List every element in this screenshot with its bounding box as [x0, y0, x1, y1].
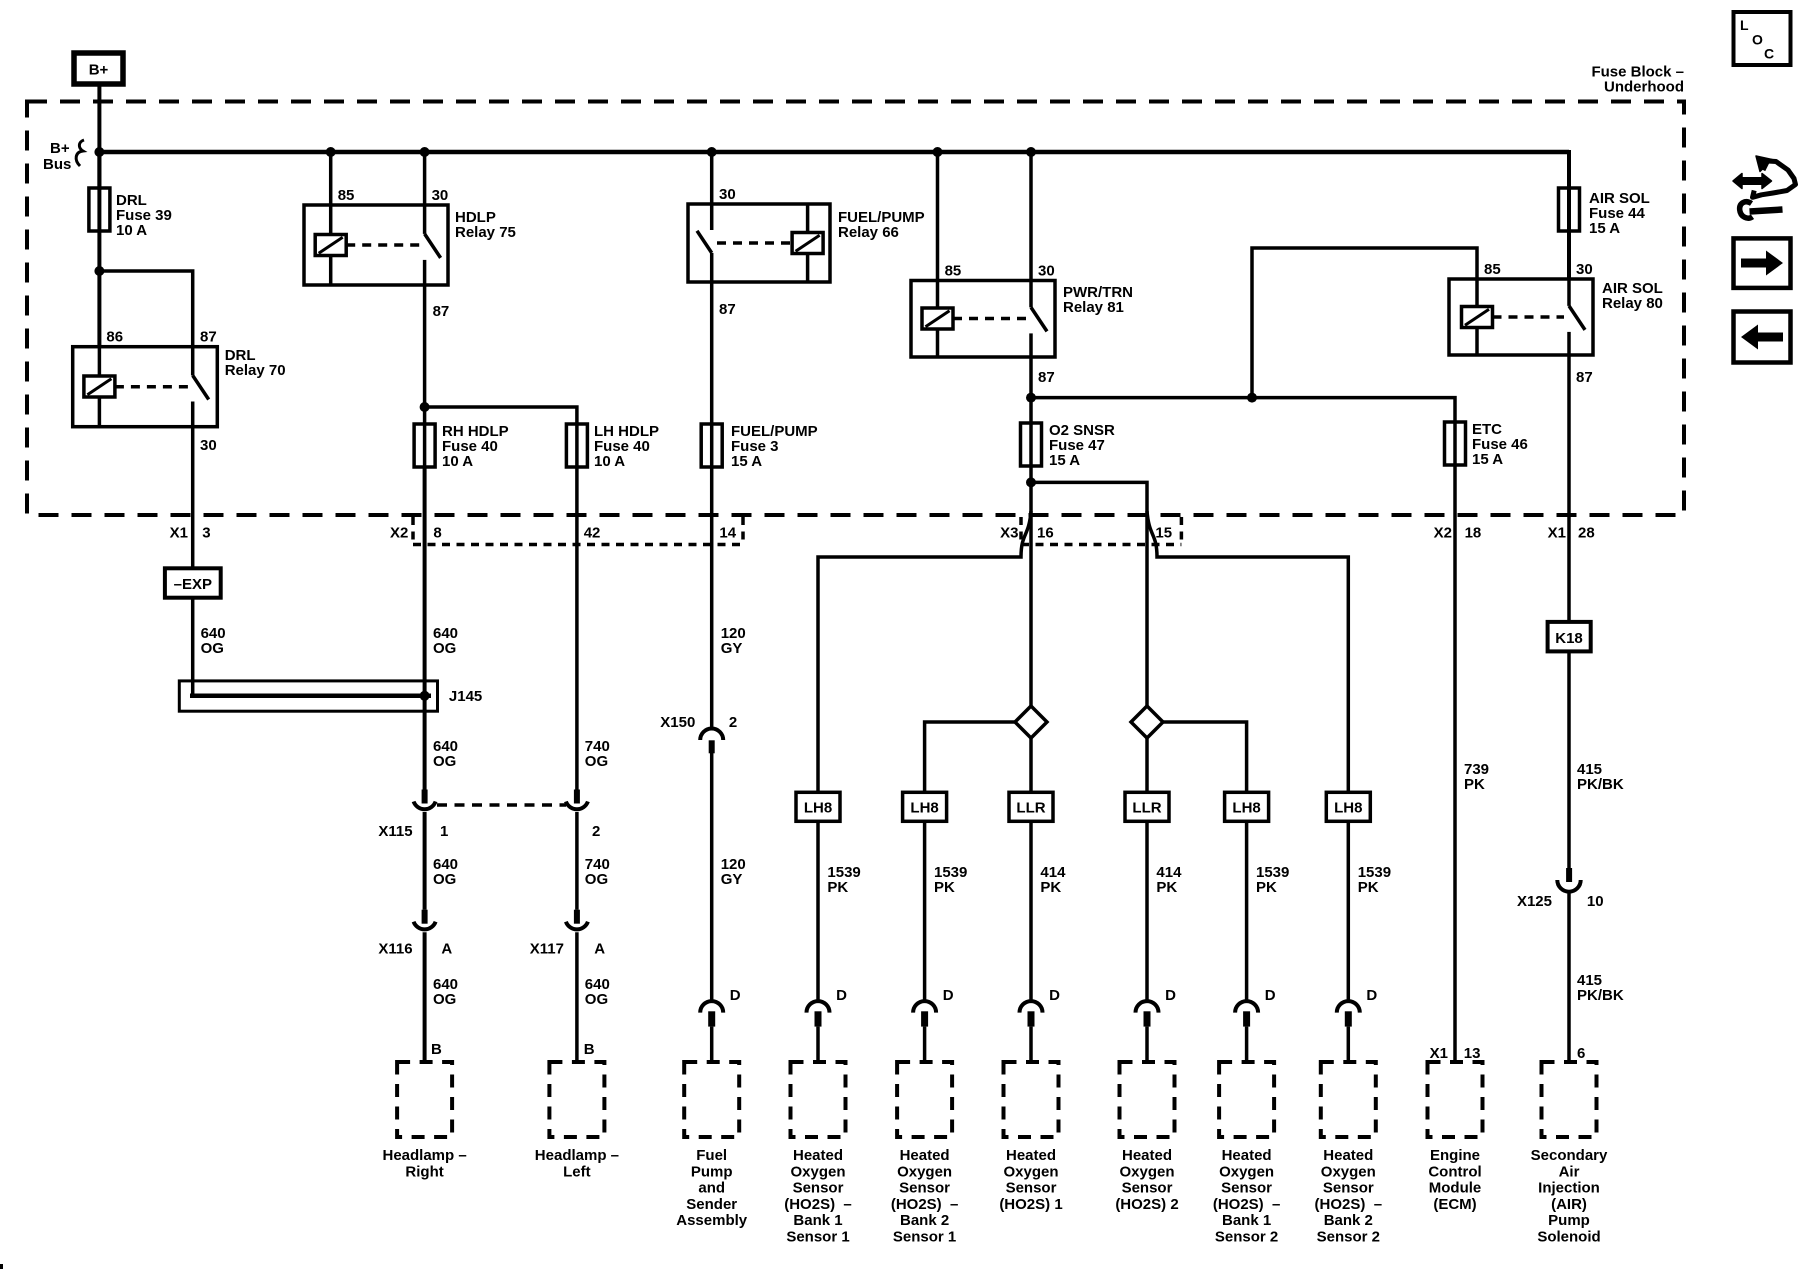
svg-text:30: 30: [1576, 261, 1593, 278]
wire label 415 PK/BK (upper): [1577, 761, 1624, 793]
svg-text:1: 1: [440, 823, 448, 840]
svg-text:Secondary: Secondary: [1531, 1147, 1608, 1164]
svg-text:X1: X1: [1548, 525, 1566, 542]
node: fuse39 output split: [94, 266, 104, 276]
svg-text:A: A: [441, 941, 452, 958]
svg-text:16: 16: [1037, 525, 1054, 542]
svg-text:Heated: Heated: [1222, 1147, 1272, 1164]
stray ink mark bottom left: [0, 1264, 3, 1269]
svg-text:X3: X3: [1000, 525, 1018, 542]
svg-text:OG: OG: [433, 871, 456, 888]
wire bus to DRL fuse 39 to relay 70: [97, 152, 101, 347]
svg-text:X2: X2: [1434, 525, 1452, 542]
component dashed box Headlamp Right: [382, 1062, 466, 1180]
svg-text:Oxygen: Oxygen: [1219, 1163, 1274, 1180]
component dashed box Fuel Pump and Sender Assembly: [676, 1062, 748, 1229]
node: J145 bus tap: [420, 691, 430, 701]
wire branch left to HO2S bank1 sensor1: [818, 511, 1031, 792]
svg-text:D: D: [730, 987, 741, 1004]
node: relay 80 coil tap: [1247, 393, 1257, 403]
svg-text:Sensor: Sensor: [1122, 1180, 1173, 1197]
svg-text:GY: GY: [721, 640, 743, 657]
svg-text:X117: X117: [530, 941, 564, 958]
connector X2 pin box (pins 8 42 14): [413, 517, 743, 546]
wire branch right to HO2S bank2 sensor2: [1147, 511, 1348, 792]
wire LH8 leg6 to sensor, label 1539 PK, connector D: [1337, 821, 1391, 1062]
wire label 640 OG (left leg): [201, 625, 226, 657]
svg-text:Fuel: Fuel: [696, 1147, 727, 1164]
component dashed box HO2S Bank 1 Sensor 1: [784, 1062, 852, 1246]
connector row labels X1 3: [170, 525, 211, 542]
component code box LH8 (leg 6): [1326, 792, 1370, 821]
wire relay 81 pin 30 from bus: [1029, 152, 1033, 281]
svg-text:10 A: 10 A: [116, 222, 147, 239]
node: relay 81 output split: [1026, 393, 1036, 403]
svg-text:Oxygen: Oxygen: [1119, 1163, 1174, 1180]
svg-text:Relay 81: Relay 81: [1063, 299, 1124, 316]
svg-text:Air: Air: [1559, 1163, 1580, 1180]
svg-text:Oxygen: Oxygen: [790, 1163, 845, 1180]
svg-text:(HO2S) –: (HO2S) –: [1213, 1196, 1281, 1213]
wire labels 640 OG at headlamp right terminal B: [431, 976, 458, 1058]
svg-text:87: 87: [719, 301, 736, 318]
wire labels 640 OG between X115 and X116: [433, 856, 458, 888]
svg-text:OG: OG: [585, 871, 608, 888]
svg-text:X150: X150: [660, 714, 695, 731]
svg-text:42: 42: [584, 525, 601, 542]
wire RH HDLP fuse to headlamp right: [423, 467, 427, 1062]
component dashed box Headlamp Left: [535, 1062, 619, 1180]
svg-text:15 A: 15 A: [1472, 451, 1503, 468]
inline connector D (fuel pump): [700, 987, 741, 1027]
wire relay 75 pin 30 from bus: [423, 152, 427, 205]
svg-text:–EXP: –EXP: [174, 576, 212, 593]
svg-text:X125: X125: [1517, 893, 1552, 910]
wire FUEL/PUMP fuse 3 to fuel pump: [710, 467, 714, 1062]
wire branch to relay 70 pin 87: [99, 271, 192, 347]
svg-text:(HO2S) 1: (HO2S) 1: [999, 1196, 1062, 1213]
fuse FUEL/PUMP Fuse 3 15 A: [701, 423, 817, 470]
wire relay 66 pin 87 to FUEL/PUMP fuse 3: [710, 282, 714, 467]
svg-text:D: D: [1265, 987, 1276, 1004]
connector X3 pin box (pins 16 15): [1021, 517, 1181, 546]
wire relay 81 pin 87 to O2 SNSR fuse 47: [1029, 357, 1033, 466]
wire fuse 47 to splice diamond 1 (pin 16): [1029, 466, 1033, 707]
component code box LH8 (leg 5): [1225, 792, 1269, 821]
inline connector X150 pin 2: [660, 714, 737, 753]
bus junction node (relay 75 pin 85): [326, 147, 336, 157]
svg-text:X1: X1: [170, 525, 188, 542]
svg-text:X2: X2: [390, 525, 408, 542]
component dashed box HO2S Bank 2 Sensor 2: [1315, 1062, 1383, 1246]
svg-text:6: 6: [1577, 1045, 1585, 1062]
svg-text:85: 85: [338, 187, 355, 204]
svg-text:Bank 1: Bank 1: [1222, 1212, 1271, 1229]
svg-text:PK: PK: [1358, 879, 1379, 896]
relay FUEL/PUMP Relay 66: [688, 186, 925, 318]
connector row labels X2 18: [1434, 525, 1482, 542]
wire relay 75 pin 85 from bus: [329, 152, 333, 205]
inline connector X116 pin A: [378, 910, 452, 958]
component code box LH8 (leg 1): [796, 792, 840, 821]
wire labels 640 OG at headlamp left terminal B: [584, 976, 610, 1058]
svg-text:PK: PK: [1256, 879, 1277, 896]
svg-text:Heated: Heated: [793, 1147, 843, 1164]
svg-text:OG: OG: [433, 640, 456, 657]
svg-text:X116: X116: [378, 941, 412, 958]
wire relay 75 pin 87 to RH HDLP fuse 40: [423, 285, 427, 467]
svg-text:Solenoid: Solenoid: [1537, 1229, 1600, 1246]
splice pack J145: [179, 681, 482, 711]
svg-text:8: 8: [433, 525, 441, 542]
wire relay 66 pin 30 from bus: [710, 152, 714, 204]
wire branch to pin 15: [1031, 482, 1147, 707]
svg-text:L: L: [1740, 17, 1749, 33]
svg-text:10: 10: [1587, 893, 1604, 910]
bus junction node (relay 81 pin 85): [933, 147, 943, 157]
svg-text:LH8: LH8: [910, 800, 938, 817]
wire diamond 1 left branch: [925, 722, 1015, 792]
svg-text:Bank 2: Bank 2: [900, 1212, 949, 1229]
svg-text:Module: Module: [1429, 1180, 1482, 1197]
svg-text:Headlamp –: Headlamp –: [535, 1147, 619, 1164]
fuse LH HDLP Fuse 40 10 A: [566, 423, 659, 470]
connector row labels X3 16 15: [1000, 525, 1172, 542]
svg-text:Control: Control: [1428, 1163, 1481, 1180]
svg-text:PK: PK: [934, 879, 955, 896]
Fuse Block - Underhood dashed border: [27, 102, 1684, 516]
wire labels 740 OG between X115 and X117: [585, 856, 610, 888]
svg-text:18: 18: [1465, 525, 1482, 542]
svg-text:Sensor: Sensor: [1323, 1180, 1374, 1197]
svg-text:Heated: Heated: [900, 1147, 950, 1164]
relay HDLP Relay 75: [304, 187, 516, 320]
svg-text:Oxygen: Oxygen: [897, 1163, 952, 1180]
wire label 640 OG (center leg upper): [433, 625, 458, 657]
svg-text:B: B: [431, 1041, 442, 1058]
svg-text:15 A: 15 A: [731, 453, 762, 470]
svg-text:Sensor: Sensor: [1006, 1180, 1057, 1197]
svg-text:Bank 2: Bank 2: [1324, 1212, 1373, 1229]
svg-text:14: 14: [719, 525, 736, 542]
component dashed box HO2S 1: [999, 1062, 1062, 1213]
svg-text:A: A: [594, 941, 605, 958]
inline connector X115 pin 2: [566, 790, 600, 841]
ECM terminal labels X1 13: [1430, 1045, 1481, 1062]
EXP box: [165, 568, 221, 597]
svg-text:Pump: Pump: [691, 1163, 733, 1180]
svg-text:(ECM): (ECM): [1433, 1196, 1476, 1213]
svg-text:13: 13: [1464, 1045, 1481, 1062]
component dashed box HO2S Bank 2 Sensor 1: [891, 1062, 959, 1246]
svg-text:3: 3: [202, 525, 210, 542]
inline connector X115 pin 1: [378, 790, 448, 841]
svg-text:Headlamp –: Headlamp –: [382, 1147, 466, 1164]
svg-text:87: 87: [200, 329, 217, 346]
svg-text:LH8: LH8: [804, 800, 832, 817]
wire branch to LH HDLP fuse 40: [425, 407, 577, 467]
node: headlamp fuse feed split: [420, 402, 430, 412]
svg-text:K18: K18: [1555, 630, 1583, 647]
svg-text:15 A: 15 A: [1049, 452, 1080, 469]
wire label 739 PK: [1464, 761, 1489, 793]
hand-drawn directions/tools icon: [1733, 156, 1796, 218]
svg-text:Sensor: Sensor: [899, 1180, 950, 1197]
svg-text:Relay 80: Relay 80: [1602, 295, 1663, 312]
wire LH8 leg2 to sensor, label 1539 PK, connector D: [913, 821, 967, 1062]
component dashed box Engine Control Module ECM: [1428, 1062, 1483, 1213]
svg-text:Left: Left: [563, 1163, 591, 1180]
svg-text:15: 15: [1155, 525, 1172, 542]
wire diamond 2 down branch: [1145, 738, 1149, 792]
svg-text:B+: B+: [89, 62, 109, 79]
wire to ETC fuse 46: [1031, 398, 1455, 465]
svg-text:B: B: [584, 1041, 595, 1058]
svg-text:Oxygen: Oxygen: [1321, 1163, 1376, 1180]
component code box K18: [1548, 622, 1591, 652]
svg-text:30: 30: [719, 186, 736, 203]
svg-text:30: 30: [1038, 263, 1055, 280]
svg-text:D: D: [943, 987, 954, 1004]
svg-text:30: 30: [432, 187, 449, 204]
svg-text:X115: X115: [378, 823, 412, 840]
svg-text:D: D: [1366, 987, 1377, 1004]
svg-text:85: 85: [1484, 261, 1501, 278]
svg-text:Engine: Engine: [1430, 1147, 1480, 1164]
component code box LH8 (leg 2): [903, 792, 947, 821]
dashed connector tie X115: [437, 803, 566, 807]
B+ bus wire: [99, 150, 1569, 155]
svg-text:Sender: Sender: [686, 1196, 737, 1213]
svg-text:Relay 70: Relay 70: [225, 362, 286, 379]
svg-text:Underhood: Underhood: [1604, 79, 1684, 96]
connector row labels X1 28: [1548, 525, 1595, 542]
wire EXP to J145: [191, 598, 195, 698]
wire B+ down to bus: [97, 86, 101, 190]
svg-text:Injection: Injection: [1538, 1180, 1600, 1197]
svg-text:87: 87: [1576, 369, 1593, 386]
svg-text:Sensor: Sensor: [1221, 1180, 1272, 1197]
wire LH8 leg1 to sensor, label 1539 PK, connector D: [807, 821, 861, 1062]
svg-text:LLR: LLR: [1016, 800, 1045, 817]
svg-text:OG: OG: [433, 991, 456, 1008]
svg-text:C: C: [1764, 46, 1774, 62]
inline connector X125 pin 10: [1517, 868, 1604, 910]
wire X125 to AIR pump solenoid: [1567, 891, 1571, 1063]
svg-text:2: 2: [729, 714, 737, 731]
svg-text:15 A: 15 A: [1589, 220, 1620, 237]
wire diamond 2 right branch: [1163, 722, 1247, 792]
wire diamond 1 down branch: [1029, 738, 1033, 792]
component dashed box Secondary Air Injection AIR Pump Solenoid: [1531, 1062, 1608, 1246]
B+ power feed symbol: [74, 53, 123, 84]
svg-text:Relay 75: Relay 75: [455, 224, 516, 241]
wire label 640 OG (below J145): [433, 738, 458, 770]
svg-text:30: 30: [200, 437, 217, 454]
svg-text:Sensor 2: Sensor 2: [1215, 1229, 1278, 1246]
wire label 740 OG (below fuse 42 leg): [585, 738, 610, 770]
connector row labels X2 8 42 14: [390, 525, 737, 542]
component dashed box HO2S 2: [1115, 1062, 1178, 1213]
svg-text:Heated: Heated: [1122, 1147, 1172, 1164]
node: sensor feed split at fuse 47: [1026, 477, 1036, 487]
svg-text:D: D: [836, 987, 847, 1004]
relay DRL Relay 70: [73, 329, 286, 454]
svg-text:J145: J145: [449, 688, 482, 705]
svg-text:PK/BK: PK/BK: [1577, 776, 1624, 793]
relay PWR/TRN Relay 81: [911, 263, 1133, 387]
svg-text:Relay 66: Relay 66: [838, 224, 899, 241]
bus junction node (B+ drop): [94, 147, 104, 157]
fuse O2 SNSR Fuse 47 15 A: [1021, 422, 1116, 469]
splice diamond S2: [1131, 706, 1163, 738]
svg-text:PK/BK: PK/BK: [1577, 987, 1624, 1004]
component code box LLR (leg 3): [1009, 792, 1053, 821]
svg-text:X1: X1: [1430, 1045, 1448, 1062]
wire label 415 PK/BK (lower): [1577, 972, 1624, 1004]
bus junction node (relay 75 pin 30): [420, 147, 430, 157]
svg-text:Sensor 1: Sensor 1: [893, 1229, 956, 1246]
fuse DRL Fuse 39 10 A: [89, 188, 172, 239]
bus junction node (relay 81 pin 30): [1026, 147, 1036, 157]
Fuse Block label: [1591, 64, 1684, 96]
wire to relay 80 pin 85: [1252, 248, 1477, 398]
svg-text:Right: Right: [405, 1163, 443, 1180]
B+ Bus label: [43, 140, 84, 173]
svg-text:PK: PK: [827, 879, 848, 896]
svg-text:10 A: 10 A: [594, 453, 625, 470]
svg-text:28: 28: [1578, 525, 1595, 542]
svg-text:O: O: [1752, 32, 1763, 48]
relay AIR SOL Relay 80: [1449, 261, 1663, 386]
svg-text:10 A: 10 A: [442, 453, 473, 470]
wire LLR leg4 to sensor, label 414 PK, connector D: [1136, 821, 1183, 1062]
svg-text:87: 87: [433, 303, 450, 320]
wire relay 80 pin 87 to K18: [1567, 355, 1571, 622]
svg-text:D: D: [1165, 987, 1176, 1004]
wire LH HDLP fuse to headlamp left: [575, 467, 579, 1062]
svg-text:OG: OG: [585, 991, 608, 1008]
svg-text:B+: B+: [50, 140, 70, 157]
svg-text:85: 85: [945, 263, 962, 280]
svg-text:Heated: Heated: [1006, 1147, 1056, 1164]
wire relay 70 pin 30 to EXP: [191, 427, 195, 569]
wire LH8 leg5 to sensor, label 1539 PK, connector D: [1235, 821, 1289, 1062]
svg-text:Assembly: Assembly: [676, 1212, 748, 1229]
forward arrow box icon: [1734, 238, 1791, 288]
svg-text:Oxygen: Oxygen: [1003, 1163, 1058, 1180]
svg-text:2: 2: [592, 823, 600, 840]
svg-text:OG: OG: [433, 753, 456, 770]
splice diamond S1: [1015, 706, 1047, 738]
component code box LLR (leg 4): [1125, 792, 1169, 821]
svg-text:Bus: Bus: [43, 156, 71, 173]
svg-text:OG: OG: [585, 753, 608, 770]
LOC box icon: [1734, 12, 1791, 65]
wire label 120 GY (lower): [721, 856, 746, 888]
svg-text:OG: OG: [201, 640, 224, 657]
svg-text:86: 86: [106, 329, 123, 346]
svg-text:Pump: Pump: [1548, 1212, 1590, 1229]
svg-text:and: and: [698, 1180, 725, 1197]
svg-text:Sensor 1: Sensor 1: [786, 1229, 849, 1246]
svg-text:(AIR): (AIR): [1551, 1196, 1587, 1213]
svg-text:(HO2S) 2: (HO2S) 2: [1115, 1196, 1178, 1213]
svg-text:PK: PK: [1156, 879, 1177, 896]
bus junction node (relay 66 pin 30): [707, 147, 717, 157]
component dashed box HO2S Bank 1 Sensor 2: [1213, 1062, 1281, 1246]
wire relay 81 pin 85 from bus: [936, 152, 940, 281]
back arrow box icon: [1734, 312, 1791, 363]
fuse RH HDLP Fuse 40 10 A: [414, 423, 509, 470]
svg-text:87: 87: [1038, 369, 1055, 386]
svg-text:(HO2S) –: (HO2S) –: [784, 1196, 852, 1213]
svg-text:LH8: LH8: [1334, 800, 1362, 817]
wire K18 to X125: [1567, 651, 1571, 868]
svg-text:(HO2S) –: (HO2S) –: [1315, 1196, 1383, 1213]
svg-text:Sensor 2: Sensor 2: [1317, 1229, 1380, 1246]
wire LLR leg3 to sensor, label 414 PK, connector D: [1020, 821, 1067, 1062]
svg-text:(HO2S) –: (HO2S) –: [891, 1196, 959, 1213]
wire ETC fuse 46 to ECM: [1453, 465, 1457, 1062]
svg-text:Bank 1: Bank 1: [793, 1212, 842, 1229]
svg-text:GY: GY: [721, 871, 743, 888]
svg-text:D: D: [1049, 987, 1060, 1004]
wire label 120 GY (upper): [721, 625, 746, 657]
svg-text:Heated: Heated: [1323, 1147, 1373, 1164]
fuse ETC Fuse 46 15 A: [1445, 421, 1528, 468]
fuse AIR SOL Fuse 44 15 A: [1559, 188, 1650, 237]
svg-text:Sensor: Sensor: [793, 1180, 844, 1197]
svg-text:LH8: LH8: [1232, 800, 1260, 817]
svg-text:PK: PK: [1464, 776, 1485, 793]
inline connector X117 pin A: [530, 910, 605, 958]
svg-text:PK: PK: [1040, 879, 1061, 896]
svg-text:LLR: LLR: [1132, 800, 1161, 817]
